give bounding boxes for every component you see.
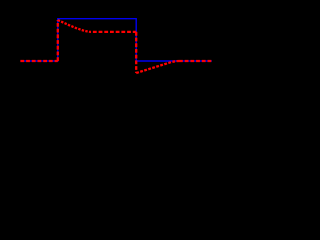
input square wave (blue solid) [20,19,211,61]
red output: baseline left segment (dashed) [20,60,57,62]
red output: rising edge (dashed) [57,20,59,61]
red output: droop decay curve (finer dashes) [58,20,90,32]
waveform plot: square wave input with sagging/undershoot output response [0,0,220,110]
red output: undershoot recovery ramp (finer dashes) [136,61,179,73]
red output: falling edge into undershoot (dashed) [135,32,137,73]
red output: baseline tail (dashed) [179,60,212,62]
red output: sagged plateau (dashed) [90,31,136,33]
